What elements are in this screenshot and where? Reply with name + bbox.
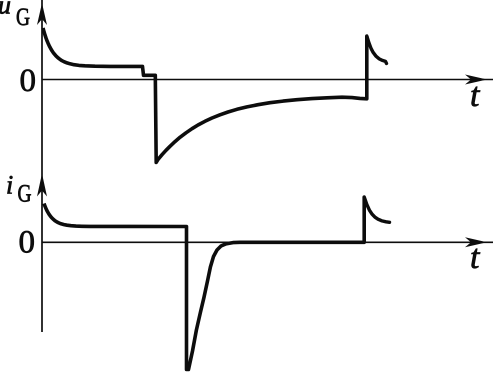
u_G spike decay tail: [367, 36, 387, 64]
svg-text:0: 0: [19, 225, 36, 261]
svg-text:0: 0: [20, 63, 37, 99]
svg-text:G: G: [18, 181, 32, 208]
svg-text:i: i: [6, 171, 13, 200]
svg-text:t: t: [470, 77, 481, 114]
u_G waveform main trace: [43, 28, 367, 163]
arrowhead of bottom x-axis: [465, 237, 487, 247]
arrowhead of bottom y-axis (i_G axis): [37, 174, 47, 197]
top x-axis (t axis of u_G plot): [42, 79, 493, 81]
arrowhead of top y-axis (u_G axis): [37, 3, 47, 25]
arrowhead of top x-axis: [465, 75, 487, 85]
y-axis (shared vertical line): [41, 0, 43, 332]
i_G waveform main trace: [44, 197, 364, 370]
bottom x-axis (t axis of i_G plot): [42, 241, 493, 243]
i_G spike decay tail: [364, 197, 389, 222]
svg-text:u: u: [0, 0, 11, 20]
svg-text:t: t: [470, 239, 481, 276]
svg-text:G: G: [16, 4, 30, 31]
